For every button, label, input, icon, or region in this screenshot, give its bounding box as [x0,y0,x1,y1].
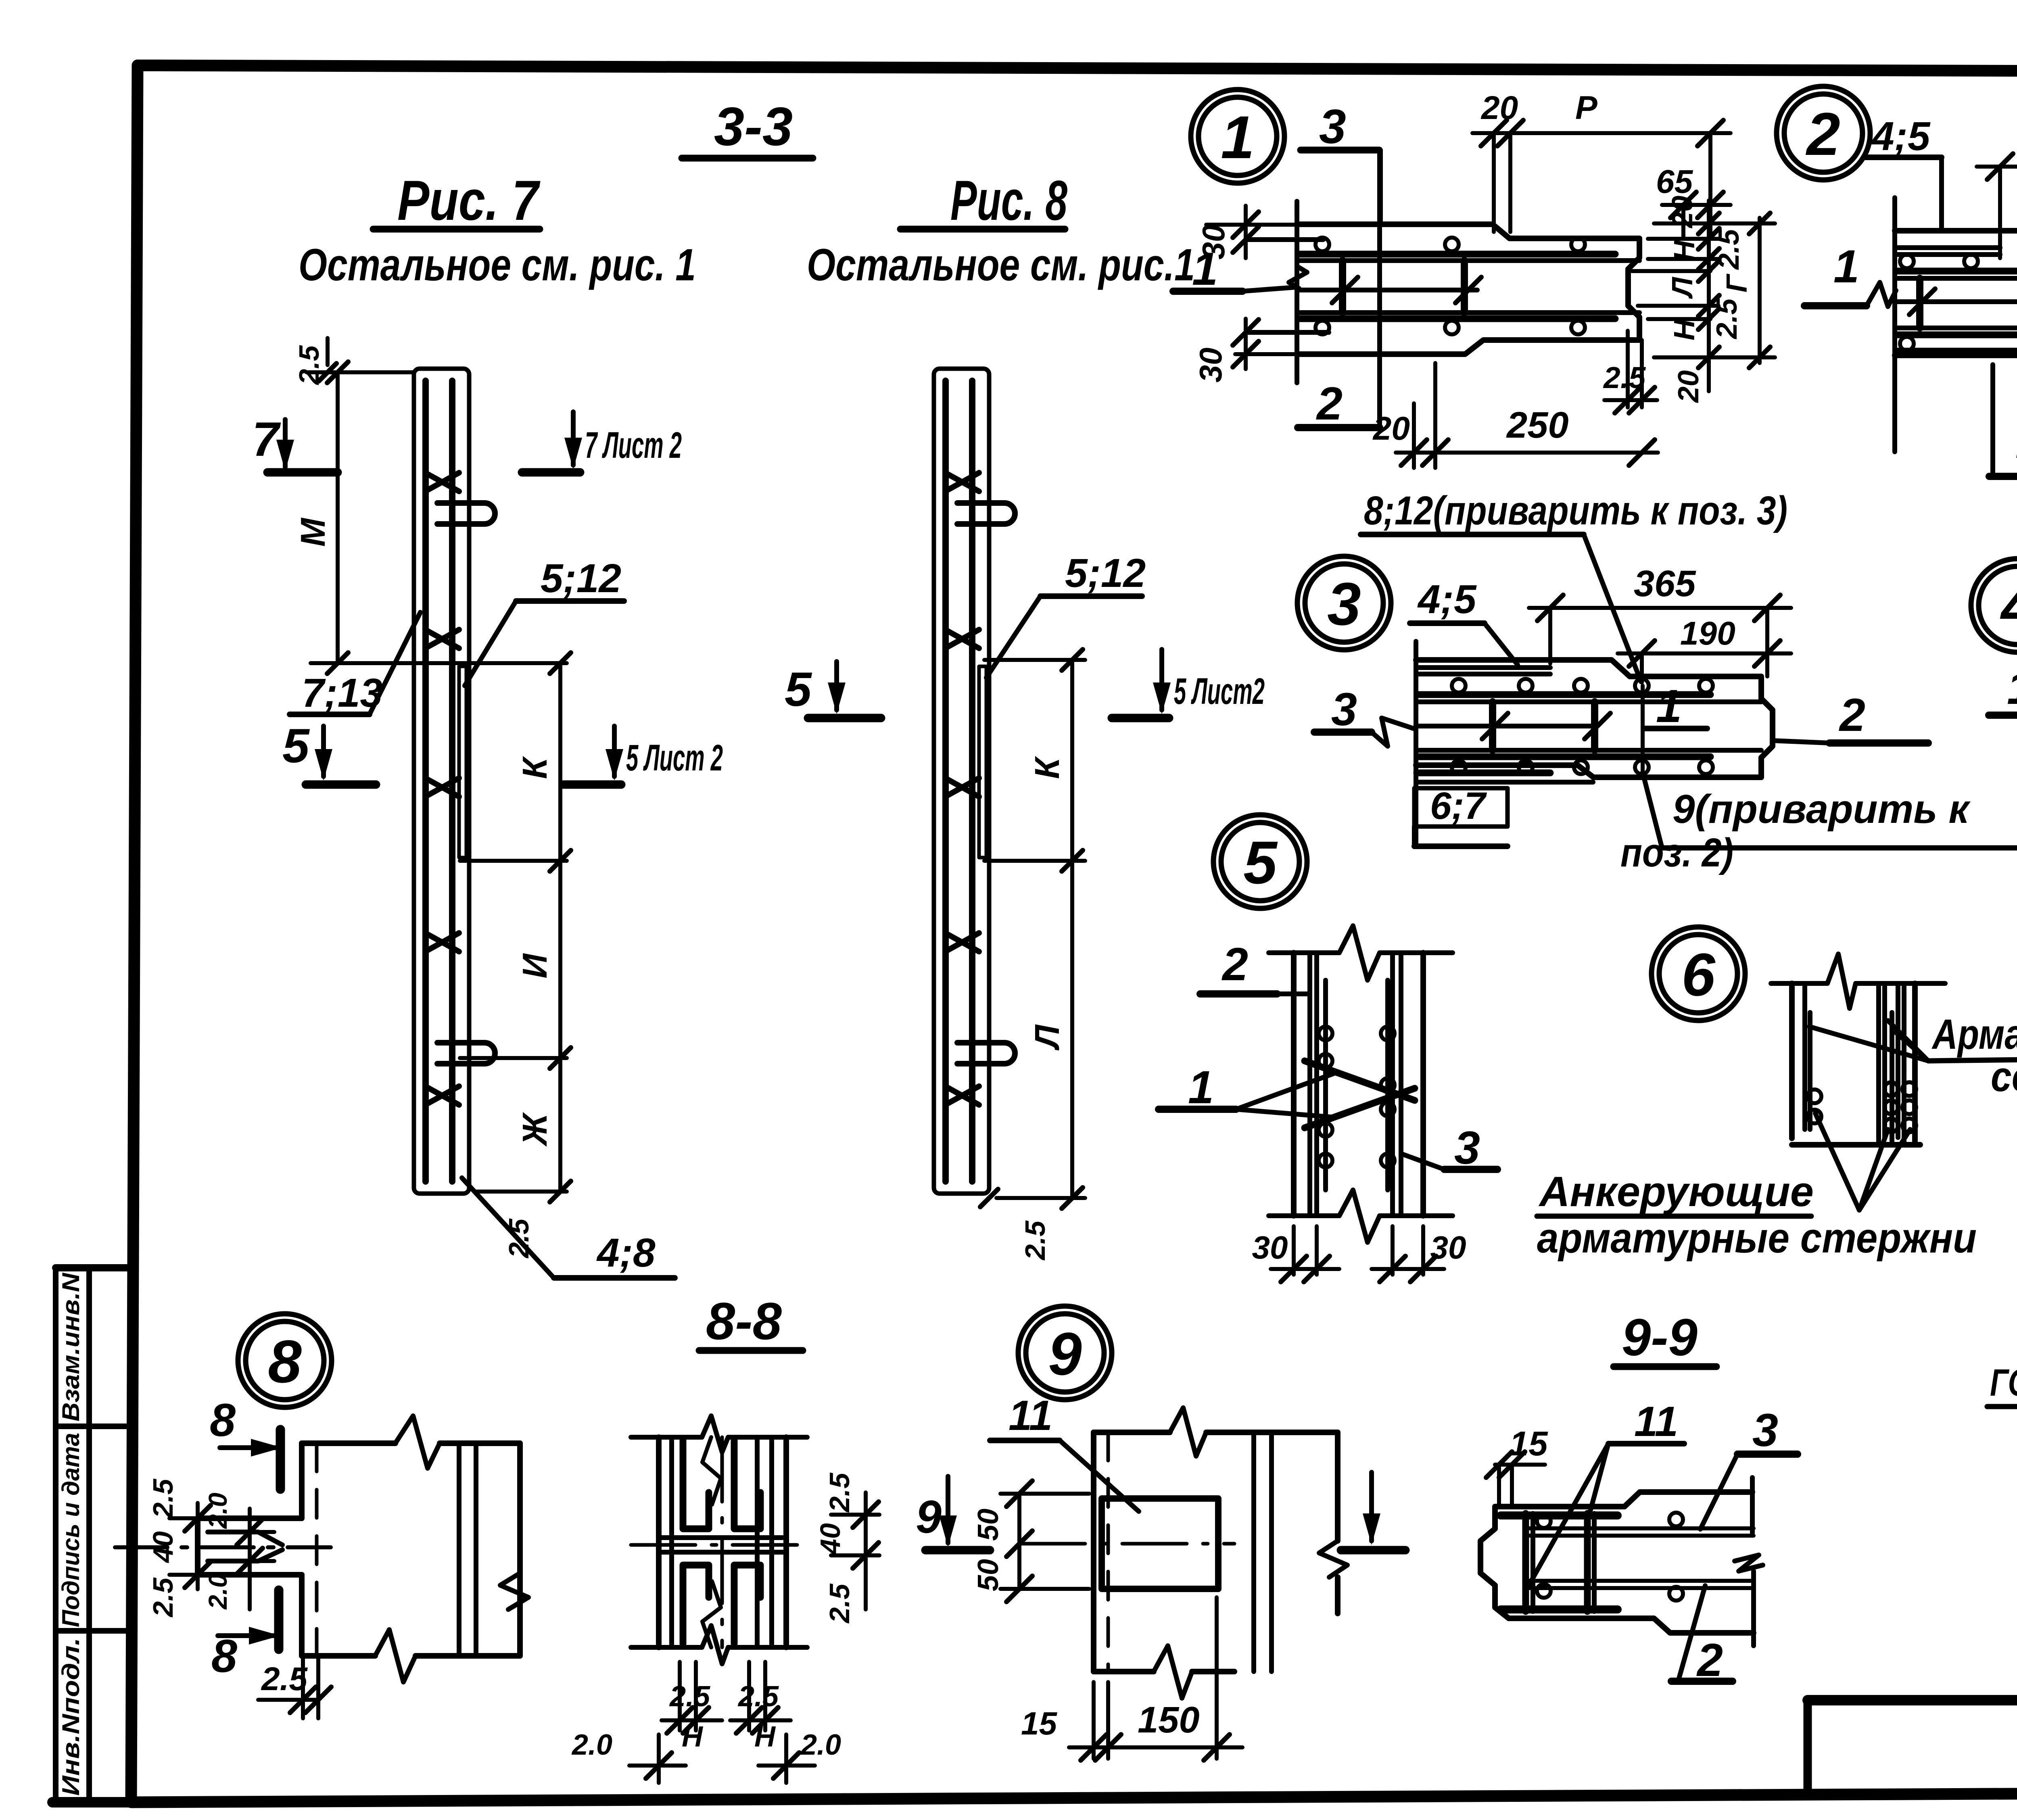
svg-text:8-8: 8-8 [706,1292,782,1350]
svg-text:Н: Н [1668,240,1701,261]
svg-text:40: 40 [814,1523,846,1555]
bottom edge 9-9 [1509,1618,1754,1633]
wall plan detail 8 [302,1440,395,1446]
svg-text:20: 20 [1372,410,1410,447]
top dim 20 P (detail 1) [1492,133,1496,232]
lower hook bar [957,1043,1015,1064]
svg-text:2.0: 2.0 [203,1574,232,1610]
svg-text:Р: Р [1575,90,1597,126]
svg-text:3: 3 [1319,100,1346,154]
bottom dim 2.5 (detail 1 right) [1626,331,1630,407]
svg-text:Инв.Nподл.: Инв.Nподл. [57,1638,84,1796]
svg-text:ГОСТ 14098-68-: ГОСТ 14098-68- [1990,1361,2017,1404]
svg-text:65: 65 [1656,163,1693,200]
vertical bars 9-9 [1522,1513,1529,1611]
svg-text:Остальное см. рис.1: Остальное см. рис.1 [807,240,1195,290]
svg-text:3-3: 3-3 [714,96,793,157]
svg-text:2.5: 2.5 [737,1680,779,1713]
svg-text:4;8: 4;8 [596,1230,656,1275]
label 6;7 box detail 3 [1414,788,1508,827]
detail circle 9 [1018,1306,1112,1400]
bottom dim 20 250 (detail 1) [1433,363,1437,468]
svg-text:2.5: 2.5 [147,1478,179,1519]
break mark right detail 8 [500,1573,528,1609]
svg-text:К: К [1028,756,1067,779]
right dim ladder detail 1 [1707,200,1711,391]
left dim 30 bottom (detail 1) [1244,319,1248,369]
column panel body (Ris.7) [414,369,469,1194]
bar 5;12 alongside column [459,666,466,858]
svg-text:5 Лист 2: 5 Лист 2 [626,737,723,779]
svg-text:2.5: 2.5 [1603,361,1646,394]
wall section detail 5 right [1385,980,1390,1190]
top mesh circles detail 2 [1900,255,1914,268]
top mesh circles detail 1 [1315,238,1329,251]
bottom dims 15 150 detail 9 [1092,1682,1096,1759]
svg-text:2.0: 2.0 [571,1729,612,1761]
svg-text:4;5: 4;5 [1417,577,1477,622]
svg-text:30: 30 [1252,1229,1288,1265]
panel outline detail 3 [1414,641,1418,843]
cross arms 8-8 [659,1535,786,1540]
detail circle 8 [238,1314,332,1407]
left dims detail 8 [196,1503,200,1589]
svg-text:Подпись и дата: Подпись и дата [57,1433,84,1627]
svg-text:4;5: 4;5 [1871,114,1931,159]
key inner lines detail 8 [208,1530,258,1534]
opening square detail 9 [1102,1499,1218,1589]
detail circle 2 [1777,86,1870,180]
svg-text:1: 1 [1221,103,1254,171]
svg-text:И: И [516,953,554,979]
svg-text:150: 150 [1138,1699,1200,1741]
lower hook bar [437,1043,495,1064]
title block box [1808,1695,2017,1705]
svg-text:2: 2 [1221,939,1248,990]
detail circle 4 [1971,559,2017,652]
dimension I (Ris.7) [460,1056,567,1060]
inner wall lines detail 8 [457,1443,461,1656]
svg-text:50: 50 [972,1559,1004,1591]
section mark 9 right [1369,1472,1374,1541]
leader fan detail 6 [1815,1113,1859,1210]
svg-text:20: 20 [1672,370,1705,403]
svg-text:арматурные стержни: арматурные стержни [1537,1215,1977,1262]
bottom mesh circles detail 1 [1315,321,1329,334]
svg-text:8: 8 [210,1394,236,1446]
svg-text:5 Лист2: 5 Лист2 [1174,671,1265,712]
dimension K (Ris.7) [460,661,567,665]
cross center lines 8-8 [631,1543,807,1547]
dim 365 detail 3 [1548,608,1552,664]
dimension M vertical [336,372,340,663]
svg-text:250: 250 [1506,405,1569,446]
key tongue detail 8 [299,1443,305,1518]
dimension Zh (Ris.7) [476,1190,567,1194]
svg-text:Арматурные: Арматурные [1931,1011,2017,1058]
detail circle 5 [1213,815,1307,908]
wall section detail 5 left [1291,953,1297,1216]
svg-text:Анкерующие: Анкерующие [1538,1168,1814,1215]
dim 190 detail 3 [1640,653,1644,682]
svg-text:4: 4 [2000,572,2017,640]
weld X marks on column [425,473,459,491]
bottom mesh bar detail 3 [1418,753,1710,760]
svg-text:7: 7 [252,412,281,466]
top mesh wire detail 1 [1249,237,1323,242]
mesh circles detail 6 [1808,1089,1821,1103]
svg-text:9-9: 9-9 [1622,1308,1698,1367]
svg-text:1: 1 [2007,662,2017,714]
svg-text:Н: Н [1668,319,1701,340]
svg-text:8: 8 [268,1327,302,1395]
svg-text:2.5: 2.5 [1019,1220,1051,1261]
svg-text:40: 40 [147,1531,179,1563]
weld X marks on column [945,473,979,491]
svg-text:5: 5 [1243,829,1278,896]
svg-text:30: 30 [1196,225,1231,260]
svg-text:М: М [294,517,332,547]
top plate 9-9 [1501,1511,1618,1519]
walls cross section 8-8 [656,1437,662,1647]
svg-text:Г: Г [1721,273,1753,292]
top mesh bar detail 2 [1896,268,2017,275]
top break line detail 5 [1269,950,1339,955]
svg-text:9(приварить к: 9(приварить к [1672,787,1971,832]
bottom wires detail 2 [1895,348,2017,353]
top mesh wires detail 2 (pos 4;5) [1895,245,2000,250]
dim 65 (detail 1) [1681,205,1685,238]
vertical break marks 8-8 [702,1437,721,1505]
svg-text:Взам.инв.N: Взам.инв.N [57,1272,84,1421]
panel outline detail 2 [1892,198,1897,452]
svg-text:2.0: 2.0 [800,1729,841,1761]
svg-text:Л: Л [1028,1024,1067,1051]
small circles 9-9 [1537,1514,1551,1528]
svg-text:3: 3 [1327,570,1361,638]
svg-text:2.5: 2.5 [147,1577,179,1618]
svg-text:15: 15 [1021,1705,1057,1741]
inner lines detail 9 [1251,1432,1256,1672]
svg-text:2.5: 2.5 [824,1583,855,1624]
long bars 9-9 [1526,1526,1754,1530]
svg-text:3: 3 [1752,1405,1778,1456]
svg-text:Н: Н [682,1721,704,1753]
svg-text:Н: Н [754,1721,776,1753]
diagonal tie bars detail 5 [1305,1061,1415,1100]
left stamp column boxes [53,1268,58,1800]
svg-text:поз. 2): поз. 2) [1620,830,1733,875]
pos 6;7 plate detail 3 [1417,770,1550,776]
label 2 detail 2 [1990,365,1995,474]
svg-text:20: 20 [1666,196,1699,229]
lower C bars 8-8 [683,1565,709,1644]
svg-text:365: 365 [1634,563,1696,604]
section mark 5 List2 right (Ris.8) [1159,649,1164,710]
bottom mesh bar detail 1 [1300,315,1615,322]
top mesh bar detail 3 [1418,691,1710,698]
dimension L (Ris.8) [996,1196,1085,1200]
svg-text:8: 8 [211,1630,237,1682]
svg-text:2: 2 [1316,378,1343,430]
svg-text:11: 11 [1634,1398,1678,1445]
inner lines detail 2 [1895,276,2017,281]
upper hook bar [437,503,495,524]
svg-text:190: 190 [1680,615,1735,652]
svg-text:2: 2 [1805,100,1840,168]
svg-text:Л: Л [1666,277,1699,299]
svg-text:К: К [516,756,554,779]
svg-text:9: 9 [916,1491,942,1543]
svg-text:2.5: 2.5 [1713,229,1745,270]
dim 30 30 detail 5 [1292,1226,1296,1275]
svg-text:2.5: 2.5 [669,1680,710,1713]
svg-text:Рис. 7: Рис. 7 [397,169,541,232]
svg-text:2.5: 2.5 [261,1661,308,1697]
inner lines detail 3 [1416,699,1761,704]
section mark 7 List 2 right [571,412,576,465]
svg-text:15: 15 [1510,1425,1548,1463]
bottom mesh circles detail 2 [1900,337,1914,351]
top mesh bar detail 1 [1300,251,1615,258]
svg-text:5: 5 [785,662,812,716]
svg-text:9: 9 [1048,1320,1082,1388]
svg-text:11: 11 [1008,1392,1052,1439]
center lines detail 9 [1021,1542,1234,1546]
right break detail 9 [1319,1541,1347,1577]
column panel body (Ris.8) [934,369,989,1194]
svg-text:1: 1 [1188,1062,1214,1113]
mesh circles detail 5 [1319,1027,1332,1040]
svg-text:50: 50 [972,1509,1004,1541]
top mesh circles detail 3 [1452,679,1466,693]
upper C bars 8-8 [683,1440,709,1529]
break mark on left edge detail 1 [1289,266,1307,288]
svg-text:6;7: 6;7 [1430,785,1487,827]
bar 5;12 alongside column [979,666,986,858]
detail circle 6 [1652,927,1745,1021]
dims 50 50 detail 9 [1017,1494,1021,1589]
dimension K (Ris.8) [984,658,1085,662]
svg-text:1: 1 [1833,241,1859,292]
detail circle 1 [1191,90,1284,183]
bottom plate 9-9 [1501,1605,1618,1613]
svg-text:1: 1 [1656,680,1682,732]
svg-text:3: 3 [1331,684,1357,735]
svg-text:2.5: 2.5 [1711,298,1743,340]
top wires detail 3 (4;5) [1416,665,1550,670]
svg-text:2.0: 2.0 [203,1493,232,1529]
top break line detail 6 [1771,981,1827,986]
svg-text:5: 5 [282,719,310,773]
svg-text:Остальное см. рис. 1: Остальное см. рис. 1 [299,240,696,290]
inner lines detail 1 [1298,258,1639,263]
right wall channel detail 6 [1876,983,1881,1145]
svg-text:Ж: Ж [516,1112,554,1147]
detail circle 3 [1297,556,1391,650]
bottom dims 8-8 [678,1662,682,1730]
dim 365 detail 2 [1998,167,2002,258]
left dim 30 top (detail 1) [1244,206,1248,258]
upper hook bar [957,503,1015,524]
svg-text:6: 6 [1681,941,1716,1008]
svg-text:8;12(приварить к поз. 3): 8;12(приварить к поз. 3) [1364,488,1787,533]
svg-text:2.5: 2.5 [824,1472,855,1513]
right dims 8-8 [831,1513,879,1517]
wall plan detail 9 [1091,1432,1096,1672]
bottom break line detail 5 [1269,1213,1339,1218]
right verticals 9-9 [1750,1478,1755,1533]
bottom mesh circles detail 3 [1452,760,1466,774]
section mark 5 List 2 right (Ris.7) [612,726,617,776]
svg-text:30: 30 [1430,1229,1466,1265]
left wall channel detail 6 [1789,983,1795,1138]
center line key detail 8 [115,1545,331,1549]
bottom mesh wire detail 1 [1249,330,1329,335]
horizontal breaks 8-8 [631,1435,702,1440]
panel section 9-9 [1480,1507,1606,1618]
svg-text:7 Лист 2: 7 Лист 2 [585,425,682,466]
dashed line detail 9 [1107,1432,1110,1672]
svg-text:Рис. 8: Рис. 8 [950,169,1067,232]
svg-text:30: 30 [1193,348,1228,383]
svg-text:20: 20 [1480,90,1518,126]
svg-text:5;12: 5;12 [1065,551,1146,596]
dashed hidden line detail 8 [315,1443,319,1656]
panel outline detail 1 [1295,201,1299,383]
bottom mesh bar detail 2 [1896,332,2017,338]
svg-text:2: 2 [1839,689,1865,741]
svg-text:5;12: 5;12 [541,556,621,601]
